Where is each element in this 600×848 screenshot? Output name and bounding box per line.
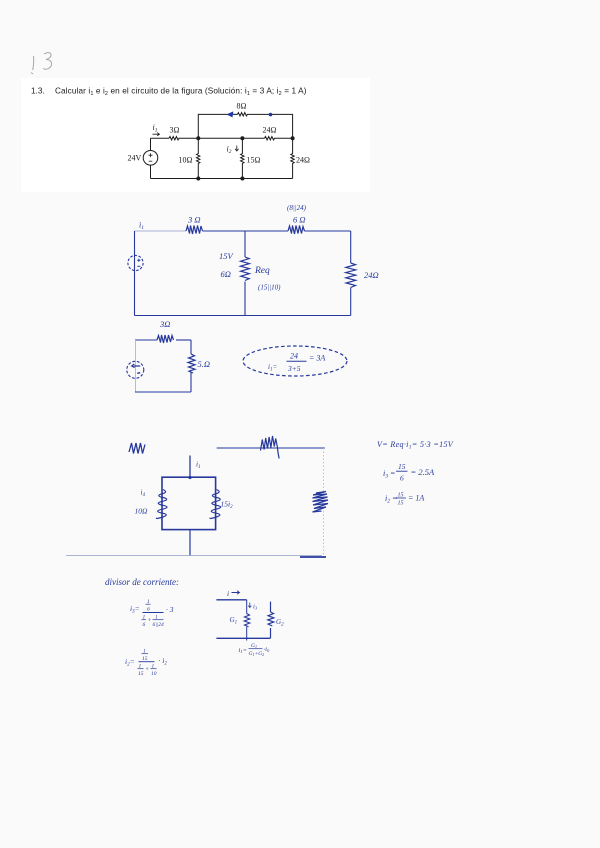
svg-text:24Ω: 24Ω	[364, 270, 379, 280]
junction dot on box top	[188, 476, 191, 479]
resistor 6ohm hand (8||24)	[288, 226, 305, 235]
resistor 8ohm	[237, 113, 247, 116]
resistor scribble on wire	[261, 436, 280, 459]
svg-text:24Ω: 24Ω	[296, 156, 310, 165]
wire from box bottom	[189, 530, 191, 556]
pencil mark "3" top-left	[43, 53, 52, 70]
wire node A to node B	[198, 137, 264, 139]
wire into box top	[189, 456, 191, 478]
wire left vertical	[134, 231, 136, 316]
wire to node C	[274, 137, 293, 139]
wire top left	[135, 339, 157, 341]
wire middle left	[151, 137, 170, 139]
source circle hand	[128, 255, 143, 270]
voltage source 24V	[143, 151, 158, 166]
svg-text:6: 6	[147, 607, 150, 613]
node B dot	[240, 136, 244, 140]
resistor G2	[268, 612, 274, 626]
svg-text:5.Ω: 5.Ω	[198, 359, 211, 369]
source mark inside	[137, 372, 140, 375]
resistor 3ohm	[169, 137, 179, 140]
wire top branch right	[247, 114, 293, 138]
svg-text:(15||10): (15||10)	[258, 284, 281, 292]
svg-text:Req: Req	[254, 266, 270, 276]
svg-text:(8||24): (8||24)	[287, 204, 307, 212]
resistor 24ohm hand right	[346, 263, 356, 288]
wire left vertical (faint)	[135, 340, 137, 392]
resistor 10ohm squiggle on left edge	[156, 490, 167, 519]
svg-text:· i2: · i2	[159, 656, 168, 667]
svg-text:6Ω: 6Ω	[221, 269, 231, 279]
wire left vertical	[246, 600, 248, 614]
parallel box	[162, 477, 216, 529]
wire top-mid	[203, 230, 289, 232]
svg-text:Calcular i1 e i2 en el circuit: Calcular i1 e i2 en el circuito de la fi…	[55, 87, 307, 98]
source arrow inside	[132, 364, 141, 368]
wire top-right	[305, 230, 351, 232]
svg-text:G1: G1	[251, 643, 257, 649]
node A dot	[196, 136, 200, 140]
source minus	[137, 265, 140, 267]
svg-text:= 1A: = 1A	[408, 494, 424, 503]
wire bottom	[151, 178, 293, 180]
node C dot	[291, 136, 295, 140]
result ellipse	[243, 346, 347, 376]
resistor 15ohm	[241, 138, 244, 178]
wire source top	[150, 138, 152, 150]
wire top right horizontal	[217, 447, 325, 449]
resistor 10ohm	[197, 138, 200, 178]
svg-text:15i2: 15i2	[221, 500, 234, 511]
long faint bottom wire	[66, 555, 322, 557]
svg-text:= 2.5A: = 2.5A	[411, 467, 435, 477]
svg-text:i3 =: i3 =	[383, 469, 395, 480]
dark bottom wire segment	[300, 556, 326, 558]
svg-text:15: 15	[138, 671, 144, 677]
node D dot bottom	[196, 177, 200, 181]
svg-text:6 Ω: 6 Ω	[293, 215, 306, 225]
svg-text:1.3.: 1.3.	[31, 87, 45, 96]
svg-text:· 3: · 3	[166, 605, 174, 614]
resistor 5ohm hand	[188, 354, 195, 373]
svg-text:i1=: i1=	[239, 647, 247, 654]
pencil mark "1" top-left	[31, 56, 34, 74]
source + mark	[149, 153, 153, 157]
wire middle vertical bottom	[244, 282, 246, 316]
svg-text:= 3A: = 3A	[309, 354, 325, 363]
wire top	[216, 599, 246, 601]
wire source bottom	[150, 165, 152, 178]
svg-text:3+5: 3+5	[287, 364, 301, 373]
source - mark	[149, 160, 153, 162]
wire top-left (faint)	[135, 230, 187, 232]
svg-text:10: 10	[151, 671, 157, 677]
problem statement white panel	[21, 78, 370, 192]
blue pen arrow mark on 8ohm left	[228, 112, 235, 116]
wire right vertical	[270, 602, 272, 612]
svg-text:6: 6	[400, 474, 404, 483]
svg-text:i3=: i3=	[130, 604, 140, 615]
svg-text:·i0: ·i0	[264, 646, 270, 653]
wire bottom	[135, 315, 351, 317]
wire top right	[176, 339, 191, 341]
resistor 3ohm hand	[157, 335, 174, 343]
svg-text:G1: G1	[230, 616, 238, 626]
svg-text:10Ω: 10Ω	[135, 507, 149, 516]
svg-text:3 Ω: 3 Ω	[187, 215, 201, 225]
resistor scribble right vertical	[313, 492, 329, 513]
wire bottom	[216, 637, 270, 639]
svg-text:i1: i1	[139, 221, 144, 232]
svg-text:i2 =: i2 =	[385, 494, 397, 505]
svg-text:24Ω: 24Ω	[263, 126, 277, 135]
svg-text:G2: G2	[276, 618, 284, 628]
svg-text:15: 15	[398, 462, 406, 471]
resistor 6ohm hand middle	[240, 257, 249, 281]
wire left vertical bottom	[246, 627, 248, 641]
svg-text:24: 24	[290, 352, 298, 361]
wire right vertical bottom	[350, 288, 352, 316]
wire right vertical bottom	[270, 628, 272, 638]
resistor 3ohm hand	[186, 226, 203, 235]
svg-text:15: 15	[398, 501, 404, 507]
wire top branch left	[198, 114, 237, 138]
svg-text:divisor de corriente:: divisor de corriente:	[105, 577, 179, 587]
node E dot bottom	[240, 177, 244, 181]
svg-text:i3: i3	[253, 604, 258, 611]
svg-text:15Ω: 15Ω	[247, 156, 261, 165]
wire middle vertical top	[244, 231, 246, 257]
svg-text:i1=: i1=	[268, 363, 277, 373]
source plus	[137, 259, 140, 262]
svg-text:+: +	[145, 667, 149, 673]
blue pen dot on 8ohm right	[269, 113, 273, 117]
wire right vertical top	[350, 231, 352, 263]
svg-text:V= Req·i1= 5·3 =15V: V= Req·i1= 5·3 =15V	[377, 440, 454, 451]
resistor 15ohm squiggle on right edge	[210, 490, 221, 519]
resistor 24ohm top-right	[265, 137, 275, 140]
svg-text:24V: 24V	[128, 154, 142, 163]
svg-text:i4: i4	[141, 489, 146, 499]
label i3 down	[248, 603, 251, 608]
svg-text:+: +	[148, 618, 152, 624]
wire right top	[190, 340, 192, 354]
formula1 main bar	[143, 612, 164, 614]
wire to node A	[179, 137, 199, 139]
wire right bottom	[190, 373, 192, 393]
source circle hand	[127, 361, 144, 378]
svg-text:i1: i1	[196, 460, 201, 471]
resistor G1	[244, 614, 250, 627]
svg-text:6: 6	[143, 622, 146, 628]
svg-text:15: 15	[142, 656, 148, 662]
resistor 24ohm right	[291, 138, 294, 178]
formula2 main bar	[139, 661, 155, 663]
svg-text:G1+G2: G1+G2	[249, 651, 265, 657]
svg-text:15V: 15V	[219, 251, 235, 261]
wire bottom	[135, 391, 191, 393]
svg-text:10Ω: 10Ω	[179, 156, 193, 165]
svg-text:i2=: i2=	[125, 657, 135, 668]
dotted vertical wire right	[322, 448, 324, 557]
svg-text:8Ω: 8Ω	[237, 102, 247, 111]
svg-text:3Ω: 3Ω	[159, 319, 170, 329]
svg-text:6||24: 6||24	[153, 621, 165, 628]
lone resistor scribble top-left	[129, 443, 145, 454]
svg-text:3Ω: 3Ω	[170, 126, 180, 135]
svg-text:i: i	[227, 589, 229, 598]
